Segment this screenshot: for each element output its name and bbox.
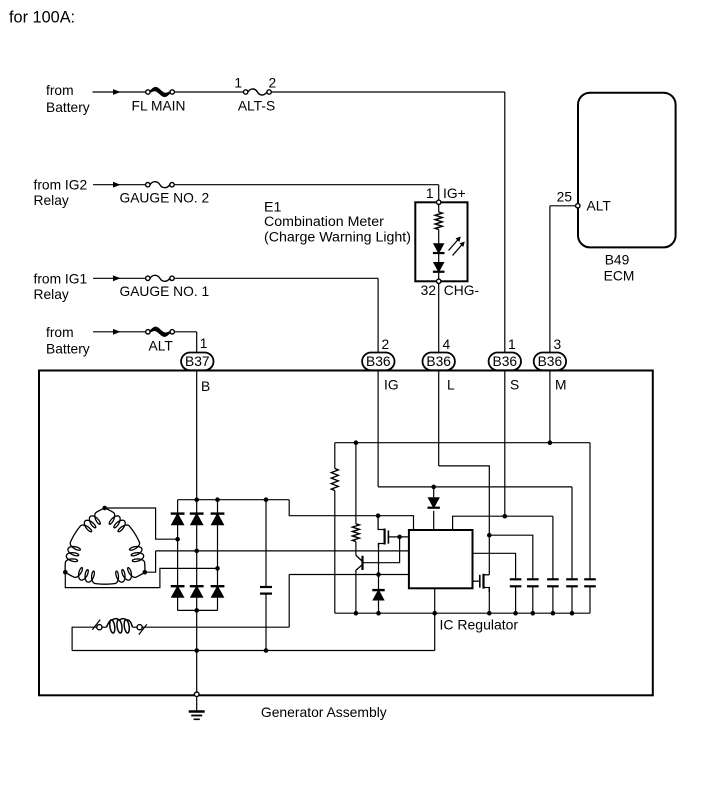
rectifier bottom bus [178,609,218,611]
junction B top bus [194,497,199,502]
junction C3 ground [531,611,536,616]
resistor R1 [331,469,338,491]
junction D3 anode [376,572,381,577]
rectifier top bus [178,499,290,501]
wire M into box [549,371,551,443]
svg-text:FL MAIN: FL MAIN [132,99,186,114]
junction C2 ground [513,611,518,616]
wire cap2 branch [489,535,533,579]
wire D3 lower [378,601,380,614]
svg-text:B: B [201,379,210,394]
wire L into box [438,371,440,466]
charge warning LED [433,243,445,254]
combination meter box E1 [415,202,467,281]
svg-text:1: 1 [200,336,208,351]
wire C3 bottom [532,586,534,613]
svg-text:Battery: Battery [46,100,90,115]
resistor meter R [435,212,442,230]
wire field right [142,626,289,628]
diode meter [433,262,445,273]
wire CHG- vertical to B36 [438,284,440,353]
feed arrow row 3 [93,277,121,279]
wire B to ground [196,610,198,693]
rectifier diode bottom 2 [190,585,204,587]
MOSFET M1 [378,516,385,530]
svg-text:1: 1 [234,76,242,91]
junction M sense line [548,440,553,445]
svg-text:25: 25 [557,190,573,205]
wire to ground symbol [196,697,198,711]
capacitor C1 [260,586,272,588]
wire M vertical [549,206,551,353]
rectifier column 3 middle wire [217,525,219,587]
rectifier column 2 upper wire [196,500,198,514]
ground symbol [189,710,205,712]
wire phase B riser [145,551,156,572]
wire cap3 drop [552,516,554,579]
wire R1 to ground bus [334,491,336,614]
wire R2 to Q1 [355,542,357,556]
wire sense line horizontal [335,442,590,444]
svg-text:GAUGE NO. 1: GAUGE NO. 1 [120,284,210,299]
junction D3 ground [376,611,381,616]
wire Q1 base [364,537,400,563]
junction S branch [503,514,508,519]
wire L to M2 drain [488,535,490,575]
junction M1 gate [397,535,402,540]
junction capacitor C1 ground [264,648,269,653]
MOSFET M2 [473,580,480,582]
wire B vertical above B37 [196,332,198,353]
svg-text:1: 1 [508,337,516,352]
wire FL MAIN to fuse ALT-S [174,91,243,93]
wire phase A [105,508,178,539]
capacitor C2 [510,578,522,580]
connector B36 L [423,353,455,371]
capacitor C3 [527,578,539,580]
wire C4 bottom [552,586,554,613]
svg-text:B37: B37 [185,354,210,369]
junction phase B mid column [194,549,199,554]
rectifier column 2 lower wire [196,597,198,610]
svg-text:B36: B36 [426,354,451,369]
ECM pin 25 circle [576,204,580,208]
connector B37 [181,353,213,371]
junction R2 top [354,440,359,445]
meter pin 1 circle [437,200,441,204]
wire resistor to LED [438,230,440,244]
generator assembly box [39,371,653,696]
wire Q1 emitter [355,570,357,613]
junction regulator ground bus [432,611,437,616]
junction B bottom bus [194,608,199,613]
svg-text:from IG1: from IG1 [34,271,88,286]
svg-text:ECM: ECM [604,269,635,284]
rectifier column 2 middle wire [196,525,198,587]
junction phase A left column [175,537,180,542]
ECM box B49 [578,93,676,248]
diode D2 [428,497,440,508]
rectifier column 1 upper wire [177,500,179,514]
wire ALT-S to S corner [271,91,505,93]
capacitor C6 [584,578,596,580]
svg-text:Combination Meter: Combination Meter [264,214,384,230]
svg-text:Relay: Relay [34,193,69,208]
wire row4 arrow to ALT link [121,331,146,333]
svg-text:B36: B36 [366,354,391,369]
wire D3 upper [378,575,380,591]
wire gauge2 to meter [174,184,439,186]
rectifier column 3 upper wire [217,500,219,514]
junction phase C right column [215,566,220,571]
feed arrow row 2 [93,184,121,186]
ground bus line [72,650,435,652]
fuse GAUGE NO. 2 [146,183,150,187]
wire C5 bottom [571,586,573,613]
capacitor C4 [547,578,559,580]
svg-text:(Charge Warning Light): (Charge Warning Light) [264,229,411,245]
wire phase B to regulator [156,550,409,552]
wire bus corner down [289,500,413,530]
wire cap4 drop [571,487,573,579]
wire IG vertical [377,278,379,352]
wire C2 bottom [515,586,517,613]
case ground circle [194,692,199,697]
wire field left [72,627,97,650]
wire L branch [439,466,490,535]
connector B36 IG [362,353,394,371]
fusible link FL MAIN [146,90,150,94]
svg-text:M: M [555,378,567,393]
wire diode to pin32 [438,272,440,279]
wire S vertical [504,92,506,353]
svg-text:ALT: ALT [149,339,174,354]
svg-text:Relay: Relay [34,287,69,302]
stator winding (3-phase delta) [105,508,145,572]
svg-text:for 100A:: for 100A: [9,9,75,27]
wire F riser [288,575,290,628]
wire S branch to regulator [453,516,553,530]
rectifier diode top 1 [171,512,185,514]
svg-text:IC Regulator: IC Regulator [440,617,519,633]
diode D3 [372,589,384,591]
svg-text:from: from [46,325,74,340]
wire capacitor C1 top [265,500,267,587]
wire meter pin1 vertical [438,185,440,201]
svg-text:IG: IG [384,378,399,393]
transistor Q1 [361,556,363,570]
wire M1 source [378,544,380,575]
junction ground line [194,648,199,653]
wire D2 upper [433,487,435,497]
wire phase C [65,568,217,587]
svg-text:from: from [46,83,74,98]
svg-text:GAUGE NO. 2: GAUGE NO. 2 [120,191,210,206]
capacitor C5 [566,578,578,580]
rectifier diode top 3 [211,512,225,514]
rectifier column 1 middle wire [177,525,179,587]
wire row1 arrow to FL MAIN [121,91,146,93]
junction M1 drain [376,513,381,518]
rectifier diode top 2 [190,512,204,514]
svg-text:ALT: ALT [587,199,612,214]
connector B36 S [489,353,521,371]
junction right column top bus [215,497,220,502]
svg-text:B49: B49 [605,252,630,267]
wire C6 bottom [589,586,591,613]
wire pin25 to M corner [550,205,576,207]
regulator ground bus [335,612,590,614]
svg-text:1: 1 [426,186,434,201]
wire row3 arrow to fuse [121,277,146,279]
svg-text:3: 3 [554,337,562,352]
rectifier column 1 lower wire [177,597,179,610]
wire regulator to cap1 [473,553,516,580]
feed arrow row 1 [93,91,121,93]
wire regulator ground drop [434,588,436,650]
junction Q1 emitter ground [354,611,359,616]
svg-text:IG+: IG+ [443,186,466,201]
wire cap5 drop [589,443,591,580]
wire D2 into box [433,511,435,530]
wire R1 drop [334,443,336,469]
wire IG branch horizontal [378,486,572,488]
svg-text:S: S [510,378,519,393]
svg-text:L: L [447,378,455,393]
svg-text:4: 4 [443,337,451,352]
fuse ALT-S [244,90,248,94]
wire B into box [196,371,198,500]
fusible link ALT [146,330,150,334]
svg-text:2: 2 [269,76,277,91]
junction D2 top [431,485,436,490]
rectifier diode bottom 1 [171,585,185,587]
svg-text:B36: B36 [538,354,563,369]
svg-text:Generator Assembly: Generator Assembly [261,704,387,720]
wire IG into box [377,371,379,487]
wire S into box [504,371,506,517]
connector B36 M [534,353,566,371]
IC regulator box [409,530,473,588]
resistor R2 [352,524,359,542]
wire gauge1 to IG corner [174,277,378,279]
rectifier column 3 lower wire [217,597,219,610]
brush left [92,620,100,630]
svg-text:Battery: Battery [46,342,90,357]
junction M2 source ground [487,611,492,616]
svg-text:2: 2 [382,337,390,352]
junction L branch [487,533,492,538]
wire ALT to B corner [174,331,196,333]
svg-text:ALT-S: ALT-S [238,99,275,114]
LED emission arrows [449,239,460,251]
wire capacitor C1 bottom [265,594,267,651]
junction C4 ground [551,611,556,616]
meter pin 32 circle [437,279,441,283]
rotor field coil [102,626,107,628]
wire row2 arrow to fuse [121,184,146,186]
wire M2 source [488,588,490,614]
svg-text:B36: B36 [493,354,518,369]
feed arrow row 4 [93,331,121,333]
junction C5 ground [570,611,575,616]
rectifier diode bottom 3 [211,585,225,587]
svg-text:from IG2: from IG2 [34,178,88,193]
fuse GAUGE NO. 1 [146,276,150,280]
brush right [137,625,142,630]
junction capacitor top bus [264,497,269,502]
wire LED to diode [438,253,440,262]
wire pin1 to resistor [438,205,440,213]
wire R2 drop [355,443,357,524]
wire F to regulator [289,574,409,576]
svg-text:32: 32 [421,283,436,298]
svg-text:CHG-: CHG- [444,283,479,298]
